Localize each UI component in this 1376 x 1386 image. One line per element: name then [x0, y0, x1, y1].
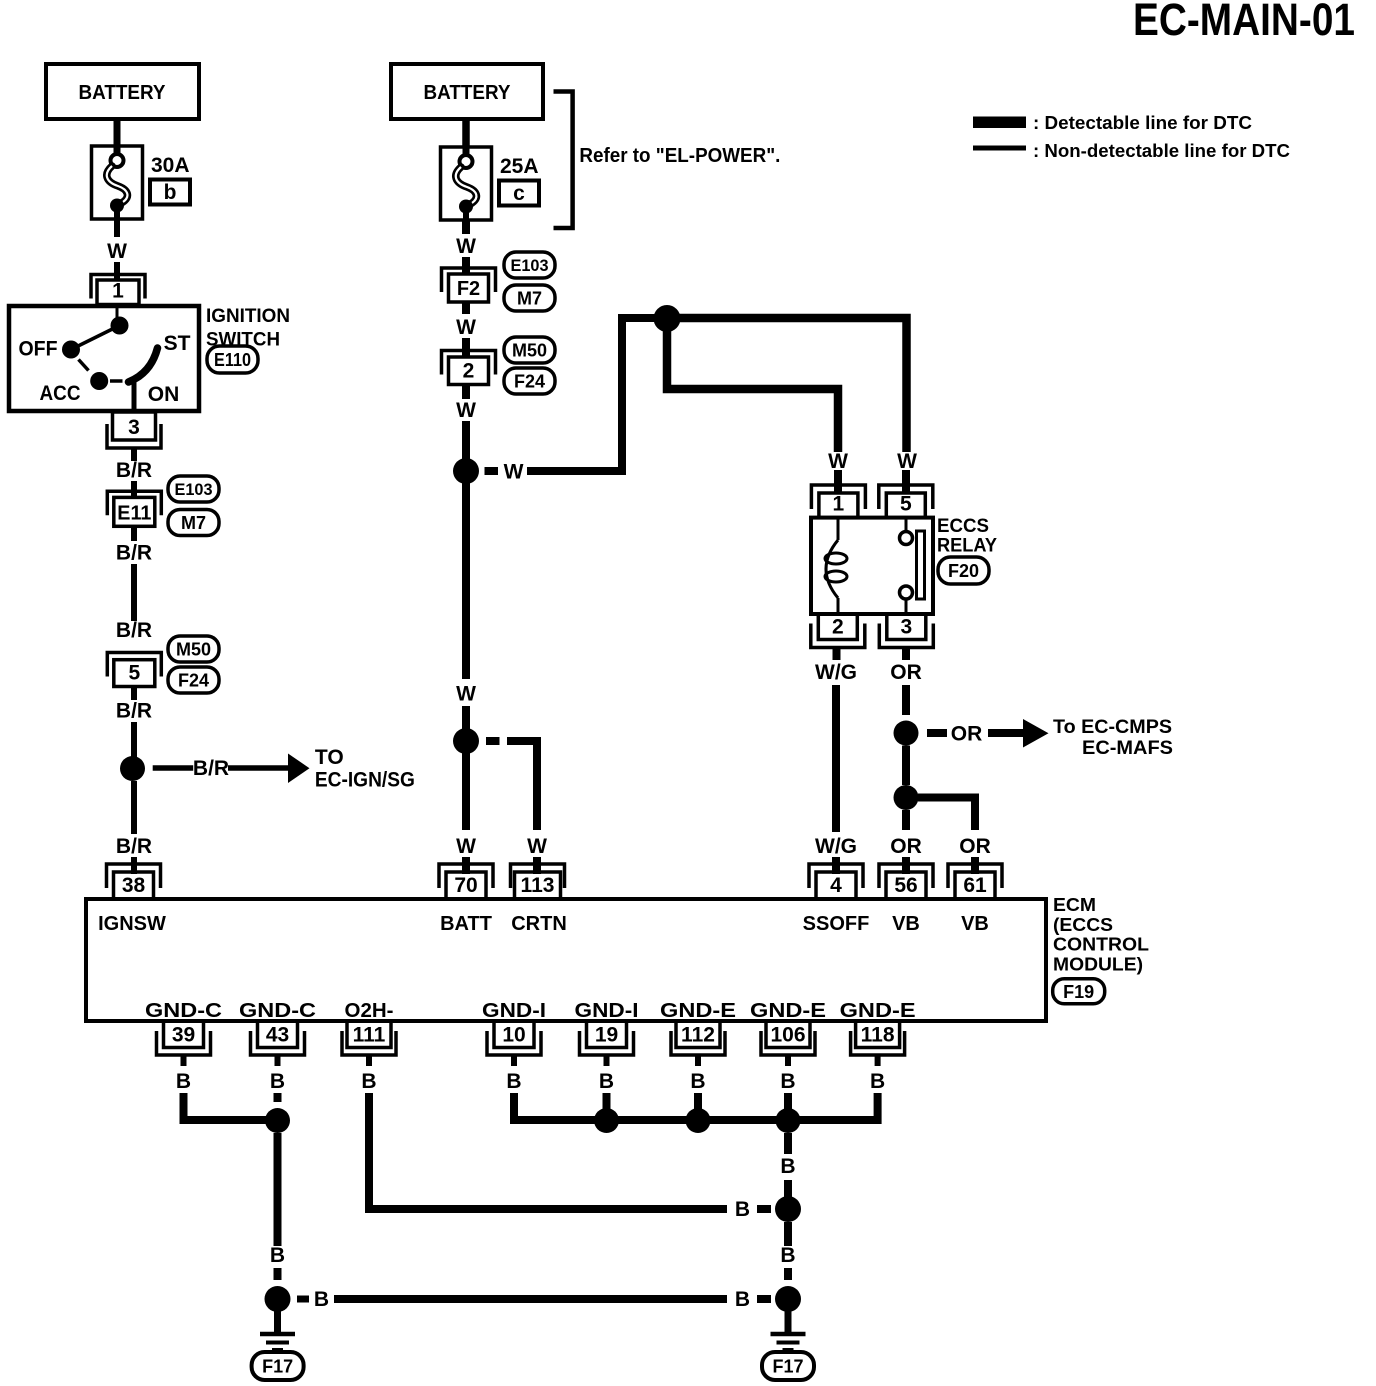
- ECM pin 10: [487, 1021, 541, 1055]
- label B/R: [116, 459, 152, 482]
- label W/G: [815, 835, 857, 858]
- wire E11 to connector 5 (B/R): [131, 526, 137, 621]
- svg-text:OR: OR: [959, 835, 991, 858]
- svg-text:ECCS: ECCS: [937, 516, 989, 537]
- wire stub B (pin x=277.5): [275, 1055, 281, 1066]
- label BATT: [440, 913, 492, 935]
- svg-text:W: W: [527, 835, 547, 858]
- svg-text:B: B: [780, 1244, 795, 1267]
- wire to pin 56 (VB): [902, 810, 910, 874]
- wire stub B (pin x=369): [366, 1055, 372, 1066]
- label W: [456, 399, 476, 422]
- svg-text:70: 70: [454, 874, 477, 897]
- connector ref F24: [168, 667, 219, 693]
- wire connector 2 to junction W: [462, 385, 470, 461]
- svg-text:GND-E: GND-E: [750, 1000, 826, 1022]
- relay pin 3: [879, 614, 933, 648]
- wire to relay pin 5: [667, 318, 907, 494]
- svg-text:B: B: [506, 1070, 521, 1093]
- svg-text:BATT: BATT: [440, 913, 492, 935]
- svg-text:W: W: [456, 683, 476, 706]
- junction B (19): [594, 1108, 619, 1133]
- label W (pin 5): [897, 450, 917, 473]
- svg-text:B: B: [690, 1070, 705, 1093]
- wire relay pin 2 to pin 4 (W/G): [832, 648, 841, 875]
- svg-text:B: B: [780, 1155, 795, 1178]
- ECM pin 106: [761, 1021, 815, 1055]
- battery B2: [391, 64, 543, 119]
- connector ref F17 (right): [762, 1352, 814, 1380]
- label B (right down): [780, 1244, 795, 1267]
- svg-text:1: 1: [112, 280, 124, 303]
- connector ref E103: [504, 252, 555, 278]
- svg-text:B/R: B/R: [116, 835, 152, 858]
- svg-text:W: W: [107, 240, 127, 263]
- svg-text:b: b: [164, 181, 177, 204]
- svg-text:c: c: [513, 182, 525, 205]
- ECM pin 118: [851, 1021, 905, 1055]
- wire junction to pin 38 (B/R): [131, 781, 137, 874]
- svg-text:W: W: [456, 316, 476, 339]
- svg-text:F17: F17: [772, 1356, 803, 1376]
- wire pin 112 to bus2: [694, 1093, 702, 1114]
- arrow to EC-CMPS EC-MAFS: [927, 719, 1049, 748]
- junction B (112): [686, 1108, 711, 1133]
- ECM pin 19: [580, 1021, 634, 1055]
- svg-text:W: W: [828, 450, 848, 473]
- svg-text:B: B: [780, 1070, 795, 1093]
- junction B (O2H-): [775, 1196, 801, 1222]
- svg-text:GND-C: GND-C: [239, 1000, 316, 1022]
- arrow to EC-IGN/SG: [153, 754, 310, 784]
- label B/R: [116, 542, 152, 565]
- legend non-detectable line text: [1033, 141, 1290, 161]
- label B (bus3 left): [314, 1288, 329, 1311]
- svg-text:W: W: [456, 399, 476, 422]
- label OR (pin 56): [890, 835, 922, 858]
- ECM box: [86, 899, 1046, 1021]
- junction W (battery feed): [453, 458, 479, 484]
- label GND-I (19): [575, 1000, 639, 1022]
- svg-text:10: 10: [502, 1024, 525, 1047]
- ECM pin 112: [671, 1021, 725, 1055]
- svg-text:E103: E103: [511, 256, 549, 275]
- label B (106 down): [780, 1155, 795, 1178]
- bus3 wire (ground bus): [297, 1296, 727, 1303]
- label B (pin x=877.6): [870, 1070, 885, 1093]
- fuse b 30A: [92, 146, 143, 219]
- connector ref F19: [1053, 979, 1105, 1004]
- label SSOFF: [803, 913, 870, 935]
- svg-text:F17: F17: [262, 1356, 293, 1376]
- label Refer to EL-POWER: [579, 145, 780, 167]
- ECM pin 39: [157, 1021, 211, 1055]
- fuse code box b: [150, 180, 190, 205]
- svg-text:B: B: [314, 1288, 329, 1311]
- svg-text:SSOFF: SSOFF: [803, 913, 870, 935]
- label B/R: [116, 619, 152, 642]
- junction OR (EC-CMPS branch): [894, 721, 919, 746]
- svg-text:To EC-CMPS: To EC-CMPS: [1053, 717, 1172, 738]
- label B/R: [116, 700, 152, 723]
- svg-text:ACC: ACC: [40, 382, 81, 405]
- label W (pin 70): [456, 835, 476, 858]
- wire junction to relay feed: [485, 318, 661, 471]
- svg-text:B/R: B/R: [116, 700, 152, 723]
- svg-text:B/R: B/R: [193, 757, 229, 780]
- connector ref M50: [504, 337, 555, 363]
- ECM pin 61: [948, 864, 1002, 899]
- svg-text:25A: 25A: [500, 155, 539, 178]
- svg-text:EC-MAFS: EC-MAFS: [1082, 738, 1173, 759]
- svg-text:F2: F2: [457, 278, 480, 300]
- svg-text:B: B: [735, 1288, 750, 1311]
- svg-text:3: 3: [900, 616, 912, 639]
- wire fuse c to connector F2 (W): [462, 220, 470, 275]
- svg-text:M7: M7: [181, 513, 206, 533]
- svg-text:GND-C: GND-C: [145, 1000, 222, 1022]
- svg-text:O2H-: O2H-: [345, 1000, 394, 1022]
- ground symbol left: [260, 1311, 295, 1350]
- label W (to relay): [504, 461, 524, 484]
- svg-text:E110: E110: [214, 350, 251, 370]
- relay pin 1: [811, 485, 865, 518]
- wire pin 111 to O2H junction: [369, 1093, 727, 1209]
- label VB (56): [892, 913, 920, 935]
- label VB (61): [961, 913, 989, 935]
- label ECCS RELAY: [937, 516, 997, 557]
- svg-text:B: B: [735, 1198, 750, 1221]
- svg-text:M50: M50: [512, 340, 547, 360]
- wire battery B1 to fuse b: [114, 119, 121, 146]
- junction W (CRTN branch): [453, 728, 479, 754]
- svg-text:M7: M7: [517, 288, 542, 308]
- wire to pin 61 (VB): [918, 798, 975, 875]
- label W: [456, 316, 476, 339]
- svg-text:B: B: [361, 1070, 376, 1093]
- label 30A: [151, 154, 190, 177]
- svg-text:1: 1: [833, 493, 845, 516]
- label O2H- (111): [345, 1000, 394, 1022]
- label B (pin x=698): [690, 1070, 705, 1093]
- connector F2: [442, 268, 496, 302]
- svg-text:5: 5: [128, 662, 140, 685]
- junction B (left ground): [265, 1286, 291, 1312]
- relay pin 2: [811, 614, 865, 648]
- ECM pin 113: [511, 864, 565, 899]
- svg-text:B: B: [599, 1070, 614, 1093]
- label B (O2H- run): [735, 1198, 750, 1221]
- bus2 wire (10-118): [514, 1093, 878, 1120]
- label W (battery B1 wire): [107, 240, 127, 263]
- junction B (right ground): [775, 1286, 801, 1312]
- wire battery B2 to fuse c: [462, 119, 470, 147]
- label B (pin x=369): [361, 1070, 376, 1093]
- wire fuse b to connector 1: [114, 219, 120, 281]
- svg-text:F24: F24: [514, 371, 545, 391]
- connector ref M7: [168, 510, 219, 536]
- svg-text:2: 2: [463, 360, 475, 383]
- connector 5: [107, 653, 161, 687]
- connector ref F20: [938, 557, 989, 584]
- junction B (106): [776, 1108, 801, 1133]
- junction B/R: [120, 756, 145, 781]
- svg-text:B: B: [176, 1070, 191, 1093]
- battery B1: [46, 64, 199, 119]
- svg-text:W/G: W/G: [815, 661, 857, 684]
- label B (pin x=277.5): [270, 1070, 285, 1093]
- svg-text:BATTERY: BATTERY: [424, 82, 512, 104]
- svg-text:61: 61: [963, 874, 987, 897]
- svg-text:W: W: [456, 835, 476, 858]
- wire connector 5 to junction (B/R): [131, 687, 137, 758]
- label W: [456, 235, 476, 258]
- wire dash above right ground dot: [784, 1268, 792, 1280]
- ECM pin 70: [439, 864, 493, 899]
- svg-text:OR: OR: [890, 835, 922, 858]
- legend detectable line text: [1033, 113, 1252, 133]
- fuse c 25A: [441, 147, 492, 220]
- wire F2 to connector 2 (W): [462, 302, 470, 358]
- wire pin 39 to bus1 and bus1 wire: [184, 1093, 278, 1120]
- connector ref E103: [168, 476, 219, 502]
- svg-text:EC-IGN/SG: EC-IGN/SG: [315, 769, 415, 792]
- label OR (pin 61): [959, 835, 991, 858]
- wire pin 43 dash: [274, 1093, 282, 1102]
- junction W (relay branch): [654, 305, 681, 332]
- wire 43 junction down: [274, 1133, 282, 1246]
- ignition switch E110: [9, 306, 199, 411]
- svg-text:5: 5: [900, 493, 912, 516]
- svg-text:E103: E103: [175, 480, 213, 499]
- legend non-detectable line swatch: [973, 146, 1026, 151]
- svg-text:F19: F19: [1063, 982, 1094, 1002]
- svg-text:106: 106: [770, 1024, 805, 1047]
- wire stub B (pin x=606.5): [604, 1055, 610, 1066]
- title EC-MAIN-01: [1133, 0, 1355, 45]
- svg-text:F20: F20: [948, 561, 979, 581]
- svg-text:4: 4: [830, 874, 842, 897]
- bracket refer to EL-POWER: [554, 92, 573, 229]
- relay pin 5: [879, 485, 933, 518]
- wire to pin 113 (CRTN): [486, 741, 537, 874]
- wire to pin 70 (BATT): [462, 753, 470, 874]
- connector ref F17 (left): [252, 1352, 304, 1380]
- wire stub B (pin x=877.6): [875, 1055, 881, 1066]
- ECM pin 4: [809, 864, 863, 899]
- connector ref E110: [207, 346, 258, 373]
- label B (pin x=514): [506, 1070, 521, 1093]
- fuse code box c: [499, 181, 539, 206]
- label IGNITION SWITCH: [206, 306, 290, 351]
- connector 1 ignition switch: [91, 275, 145, 305]
- svg-text:W: W: [897, 450, 917, 473]
- connector ref M7: [504, 285, 555, 311]
- label B (bus3 right): [735, 1288, 750, 1311]
- connector 3 ignition switch: [107, 412, 161, 448]
- svg-text:: Detectable line for DTC: : Detectable line for DTC: [1033, 113, 1252, 133]
- wire dash above left ground dot: [274, 1268, 282, 1280]
- svg-text:39: 39: [172, 1024, 195, 1047]
- svg-text:W/G: W/G: [815, 835, 857, 858]
- wire O2H junction down: [784, 1222, 792, 1246]
- svg-text:B/R: B/R: [116, 542, 152, 565]
- svg-text:RELAY: RELAY: [937, 536, 997, 557]
- svg-text:ECM: ECM: [1053, 895, 1096, 915]
- svg-text:EC-MAIN-01: EC-MAIN-01: [1133, 0, 1355, 45]
- svg-text:GND-E: GND-E: [660, 1000, 736, 1022]
- label B (pin x=183.5): [176, 1070, 191, 1093]
- svg-text:M50: M50: [176, 639, 211, 659]
- svg-text:GND-E: GND-E: [840, 1000, 916, 1022]
- label 25A: [500, 155, 539, 178]
- svg-text:112: 112: [681, 1024, 715, 1047]
- wire stub B (pin x=698): [695, 1055, 701, 1066]
- svg-text:B: B: [870, 1070, 885, 1093]
- label GND-E (106): [750, 1000, 826, 1022]
- wire connector 3 to E11 (B/R): [131, 448, 137, 497]
- label CRTN: [511, 913, 567, 935]
- ECCS relay F20: [811, 518, 933, 614]
- svg-text:19: 19: [595, 1024, 618, 1047]
- label GND-I (10): [482, 1000, 546, 1022]
- ECM pin 56: [879, 864, 933, 899]
- label GND-E (112): [660, 1000, 736, 1022]
- label B (pin x=606.5): [599, 1070, 614, 1093]
- junction OR (VB branch): [894, 785, 919, 810]
- svg-text:ON: ON: [148, 383, 180, 406]
- wire stub B (pin x=514): [511, 1055, 517, 1066]
- svg-text:118: 118: [861, 1024, 895, 1047]
- svg-text:TO: TO: [315, 746, 344, 769]
- svg-text:IGNSW: IGNSW: [98, 913, 166, 935]
- svg-text:ST: ST: [164, 332, 191, 355]
- connector 2: [442, 351, 496, 385]
- svg-text:B: B: [270, 1244, 285, 1267]
- ground symbol right: [771, 1311, 806, 1350]
- wire stub B (pin x=183.5): [181, 1055, 187, 1066]
- label OR (arrow): [951, 723, 983, 746]
- label GND-C (43): [239, 1000, 316, 1022]
- svg-text:CONTROL: CONTROL: [1053, 935, 1149, 955]
- label B/R: [116, 835, 152, 858]
- connector E11: [107, 491, 161, 526]
- label B (pin x=788): [780, 1070, 795, 1093]
- svg-text:MODULE): MODULE): [1053, 955, 1143, 975]
- label W/G: [815, 661, 857, 684]
- svg-text:OFF: OFF: [19, 338, 58, 361]
- svg-text:Refer to "EL-POWER".: Refer to "EL-POWER".: [579, 145, 780, 167]
- legend detectable line swatch: [973, 117, 1026, 129]
- label B/R (arrow): [193, 757, 229, 780]
- wire OR junction down: [902, 746, 910, 786]
- wire 106 junction down: [784, 1133, 792, 1197]
- svg-text:30A: 30A: [151, 154, 190, 177]
- svg-text:43: 43: [266, 1024, 289, 1047]
- svg-text:GND-I: GND-I: [575, 1000, 639, 1022]
- label W (pin 113): [527, 835, 547, 858]
- wire dash bus3 right: [757, 1295, 771, 1303]
- svg-text:2: 2: [832, 616, 844, 639]
- svg-text:(ECCS: (ECCS: [1053, 915, 1113, 935]
- svg-text:56: 56: [894, 874, 917, 897]
- label ECM (ECCS CONTROL MODULE): [1053, 895, 1149, 975]
- svg-text:IGNITION: IGNITION: [206, 306, 290, 327]
- svg-text:CRTN: CRTN: [511, 913, 567, 935]
- label To EC-CMPS EC-MAFS: [1053, 717, 1173, 759]
- label W: [456, 683, 476, 706]
- label W (pin 1): [828, 450, 848, 473]
- svg-text:3: 3: [128, 416, 140, 439]
- wire relay pin 3 (OR): [902, 648, 910, 716]
- label B (left down): [270, 1244, 285, 1267]
- wire junction to BATT (W): [462, 483, 470, 729]
- wire pin 19 to bus2: [603, 1093, 611, 1114]
- wire dash to O2H junction: [757, 1205, 771, 1213]
- svg-text:VB: VB: [892, 913, 920, 935]
- junction B (43): [265, 1108, 290, 1133]
- ECM pin 111: [342, 1021, 396, 1055]
- svg-text:B/R: B/R: [116, 619, 152, 642]
- svg-text:111: 111: [353, 1024, 386, 1047]
- connector ref M50: [168, 636, 219, 662]
- svg-text:E11: E11: [117, 502, 151, 524]
- svg-text:113: 113: [521, 874, 555, 897]
- wire pin 106 to bus2: [784, 1093, 792, 1114]
- ECM pin 38: [107, 864, 161, 899]
- svg-text:B/R: B/R: [116, 459, 152, 482]
- label GND-E (118): [840, 1000, 916, 1022]
- svg-text:38: 38: [122, 874, 146, 897]
- wire stub B (pin x=788): [785, 1055, 791, 1066]
- svg-text:GND-I: GND-I: [482, 1000, 546, 1022]
- svg-text:W: W: [456, 235, 476, 258]
- ECM pin 43: [251, 1021, 305, 1055]
- wire to relay pin 1: [667, 318, 838, 494]
- label GND-C (39): [145, 1000, 222, 1022]
- svg-text:BATTERY: BATTERY: [79, 82, 167, 104]
- label IGNSW: [98, 913, 166, 935]
- svg-text:F24: F24: [178, 670, 209, 690]
- svg-text:B: B: [270, 1070, 285, 1093]
- svg-text:OR: OR: [890, 661, 922, 684]
- label TO EC-IGN/SG: [315, 746, 415, 792]
- svg-text:W: W: [504, 461, 524, 484]
- svg-text:: Non-detectable line for DTC: : Non-detectable line for DTC: [1033, 141, 1290, 161]
- svg-text:OR: OR: [951, 723, 983, 746]
- label OR: [890, 661, 922, 684]
- connector ref F24: [504, 368, 555, 394]
- svg-text:VB: VB: [961, 913, 989, 935]
